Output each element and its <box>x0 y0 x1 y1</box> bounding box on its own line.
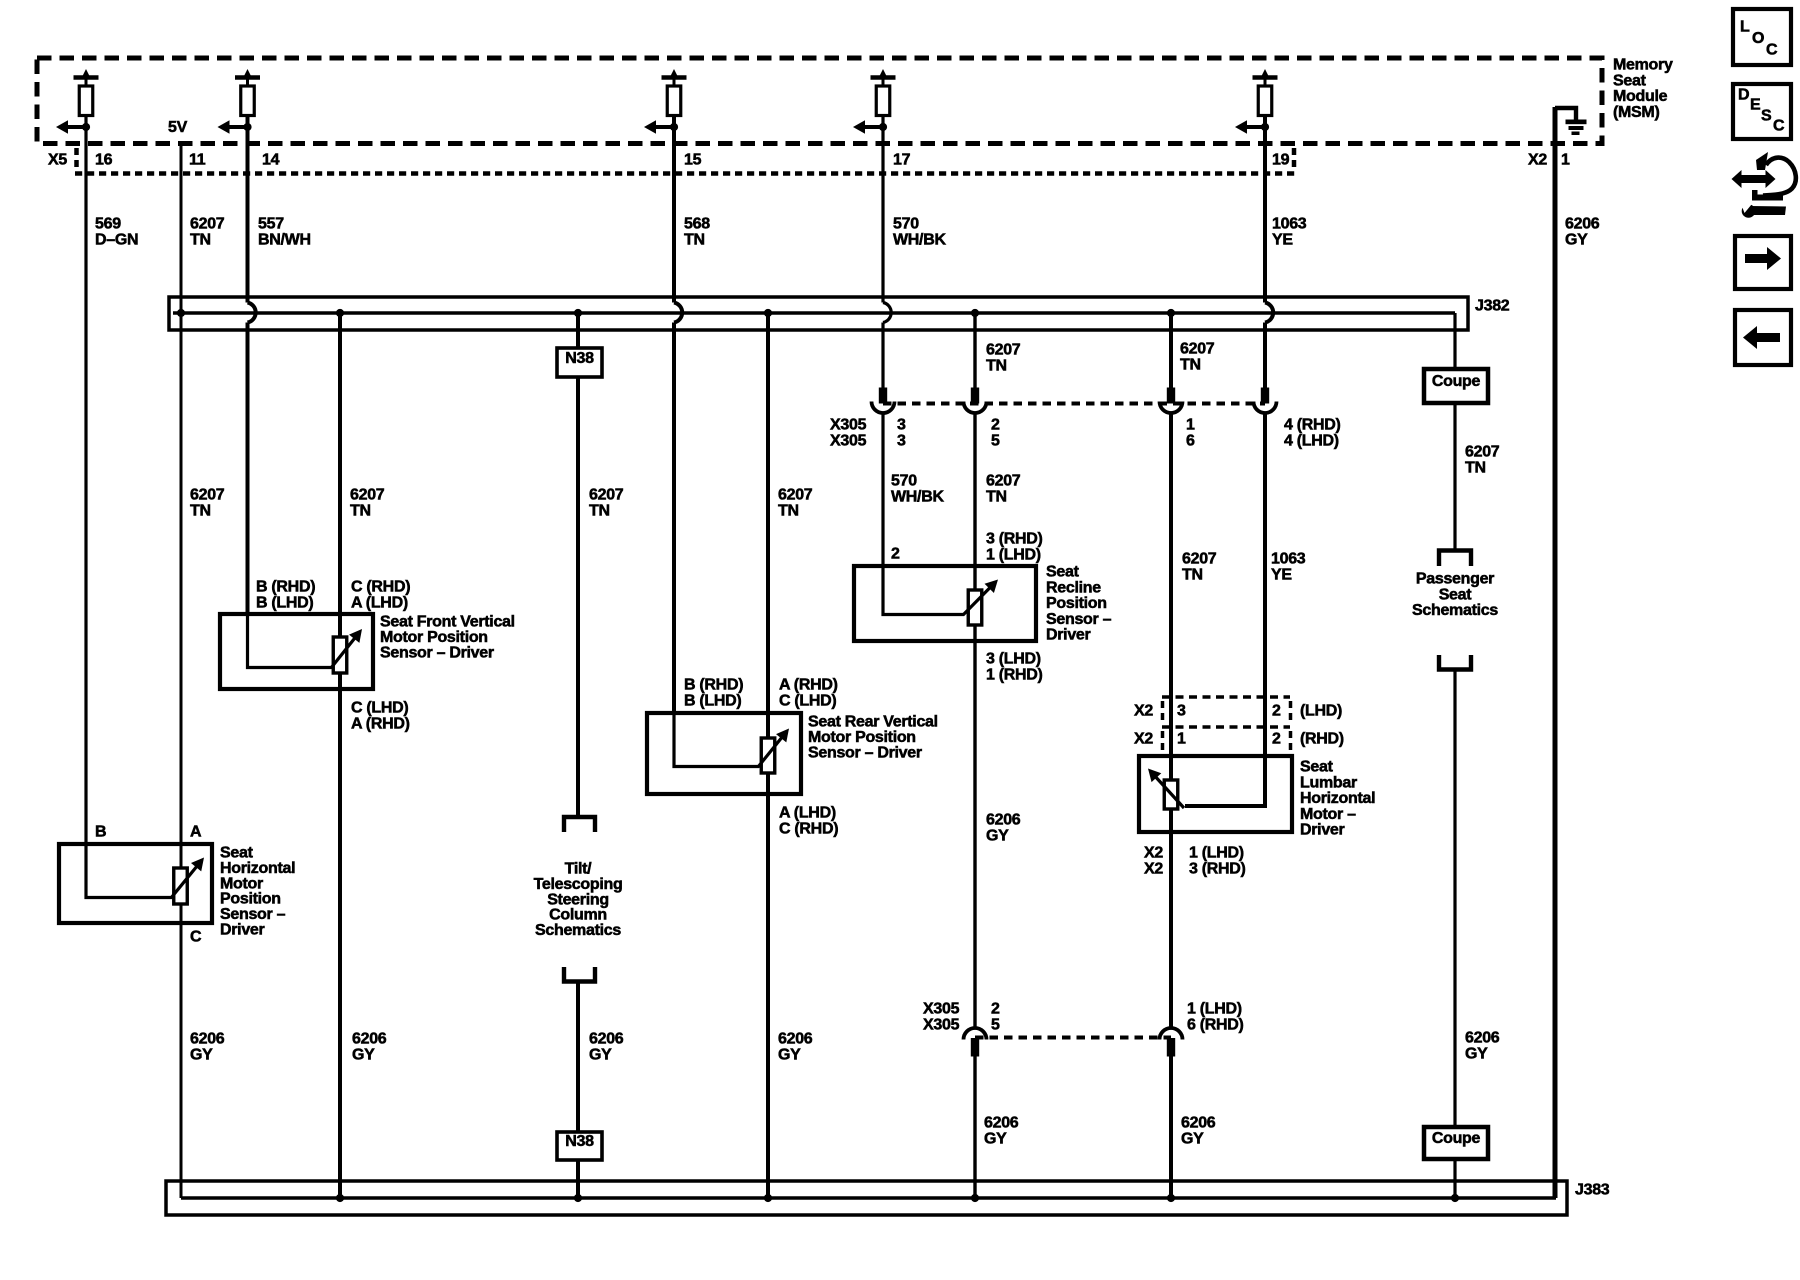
connector X2 dashed line row 2 <box>1162 725 1290 729</box>
potentiometer sensor: Seat Front Vertical Motor Position Sensor - Driver <box>220 614 373 689</box>
svg-text:TN: TN <box>190 232 211 249</box>
svg-text:B (RHD): B (RHD) <box>684 677 743 694</box>
svg-text:B (LHD): B (LHD) <box>256 595 313 612</box>
wire 6206 GY Passenger Seat bracket to Coupe to J383 <box>1453 671 1456 1198</box>
inline connector X305 dashed line (lower) <box>975 1036 1171 1040</box>
inline connector X305 lower terminal pins 1/6 <box>1160 1028 1183 1040</box>
resistor element pin 17 <box>876 86 890 116</box>
svg-text:1: 1 <box>1561 152 1570 169</box>
svg-text:6207: 6207 <box>589 487 624 504</box>
svg-text:GY: GY <box>352 1047 375 1064</box>
icon forward arrow box <box>1735 236 1791 289</box>
svg-text:6206: 6206 <box>984 1115 1019 1132</box>
svg-text:5: 5 <box>991 1017 1000 1034</box>
up arrowhead on bar pin 15 <box>670 69 679 78</box>
svg-text:GY: GY <box>1565 232 1588 249</box>
potentiometer sensor: Seat Recline Position Sensor - Driver <box>854 566 1036 641</box>
svg-text:6207: 6207 <box>986 473 1021 490</box>
svg-text:6206: 6206 <box>1565 216 1600 233</box>
svg-text:TN: TN <box>589 503 610 520</box>
svg-text:A: A <box>190 824 202 841</box>
svg-text:GY: GY <box>778 1047 801 1064</box>
svg-text:6206: 6206 <box>1181 1115 1216 1132</box>
connector X5 dotted strip line <box>75 171 1296 176</box>
junction dot on J382 at x=1171 <box>1167 309 1175 317</box>
svg-text:6: 6 <box>1186 433 1195 450</box>
wire 6207 TN tap J382 to Seat Front Vertical sensor to J383 <box>338 313 342 1198</box>
svg-text:4 (RHD): 4 (RHD) <box>1284 417 1341 434</box>
svg-text:Position: Position <box>1046 595 1107 612</box>
svg-text:6207: 6207 <box>190 487 225 504</box>
svg-text:16: 16 <box>95 152 113 169</box>
up arrowhead on bar pin 19 <box>1261 69 1270 78</box>
junction dot on J383 at x=578 <box>574 1194 582 1202</box>
svg-text:2: 2 <box>891 546 900 563</box>
wire 569 D-GN pin 16 to Seat Horizontal sensor wiper <box>84 116 87 845</box>
svg-text:Recline: Recline <box>1046 579 1101 596</box>
svg-text:GY: GY <box>986 828 1009 845</box>
svg-text:3: 3 <box>1177 703 1186 720</box>
svg-text:15: 15 <box>684 152 702 169</box>
svg-text:6206: 6206 <box>1465 1030 1500 1047</box>
off-page bracket to Passenger Seat Schematics (lower) <box>1439 655 1471 670</box>
svg-text:1 (LHD): 1 (LHD) <box>986 547 1041 564</box>
resistor element pin 16 <box>79 86 93 116</box>
svg-text:A (RHD): A (RHD) <box>351 716 410 733</box>
svg-text:3: 3 <box>897 433 906 450</box>
svg-text:X305: X305 <box>830 417 867 434</box>
junction dot on J383 at x=768 <box>764 1194 772 1202</box>
signal arrow to MSM logic pin 16 <box>60 125 86 129</box>
svg-text:(LHD): (LHD) <box>1300 703 1342 720</box>
MSM internal ground connection corner <box>1555 108 1576 120</box>
junction dot pin 16 <box>82 123 90 131</box>
Memory Seat Module (MSM) dashed outline box <box>37 58 1602 144</box>
svg-text:568: 568 <box>684 216 710 233</box>
splice pack J383 inner conductor <box>181 1196 1556 1200</box>
svg-text:TN: TN <box>986 489 1007 506</box>
splice pack J382 outer box <box>169 297 1468 330</box>
signal arrow to MSM logic pin 15 <box>648 125 674 129</box>
svg-text:X2: X2 <box>1144 845 1163 862</box>
svg-text:C: C <box>1766 42 1778 59</box>
svg-text:570: 570 <box>893 216 919 233</box>
junction dot pin 19 <box>1261 123 1269 131</box>
stem pin 16 <box>85 78 88 88</box>
icon DESC box <box>1733 84 1791 139</box>
svg-text:2: 2 <box>991 417 1000 434</box>
icon quick-link (double arrow, loop arrow, wrench) <box>1741 175 1766 183</box>
svg-text:D: D <box>1738 87 1749 104</box>
wire 6207 TN tap J382 to X305 (lumbar branch) <box>1169 313 1173 389</box>
off-page bracket to Tilt/Telescoping (upper) <box>564 817 595 832</box>
svg-text:6207: 6207 <box>986 342 1021 359</box>
resistor element pin 19 <box>1258 86 1272 116</box>
junction dot on J383 at x=1171 <box>1167 1194 1175 1202</box>
svg-text:TN: TN <box>1180 357 1201 374</box>
svg-text:6206: 6206 <box>778 1031 813 1048</box>
wire 6206 GY X2 pin 1 ground to J383 <box>1553 107 1558 1198</box>
wire 570 WH/BK pin 17 hop to X305 plug <box>881 323 884 390</box>
potentiometer: Seat Lumbar Horizontal Motor - Driver <box>1139 756 1292 832</box>
svg-text:569: 569 <box>95 216 121 233</box>
svg-text:Sensor –: Sensor – <box>1046 611 1112 628</box>
svg-text:GY: GY <box>1465 1046 1488 1063</box>
svg-text:O: O <box>1752 30 1764 47</box>
svg-text:1063: 1063 <box>1271 551 1306 568</box>
wire 570 WH/BK pin 17 (above J382 hop) <box>881 116 884 303</box>
up arrowhead on bar pin 16 <box>82 69 91 78</box>
junction dot pin 14 <box>243 123 251 131</box>
internal MSM sensor feed symbol for pin 17: top bar <box>871 75 896 80</box>
junction dot on J383 at x=1455 <box>1451 1194 1459 1202</box>
svg-text:J382: J382 <box>1475 298 1510 315</box>
splice pack J382 inner conductor <box>173 311 1455 315</box>
svg-text:6207: 6207 <box>778 487 813 504</box>
junction dot pin 17 <box>879 123 887 131</box>
inline connector X305 upper terminal pins 3/3 <box>879 388 887 404</box>
svg-text:TN: TN <box>350 503 371 520</box>
wire 557 BN/WH pin 14 (below hop) to Seat Front Vertical sensor <box>246 323 250 615</box>
wire 6207 TN tap J382 through N38 to bracket <box>576 313 580 817</box>
svg-text:Schematics: Schematics <box>535 922 621 939</box>
inline connector X305 upper terminal pins 1/6 <box>1167 388 1175 404</box>
svg-text:Coupe: Coupe <box>1432 373 1481 390</box>
svg-text:Coupe: Coupe <box>1432 1130 1481 1147</box>
svg-text:Memory: Memory <box>1613 57 1673 74</box>
stem pin 17 <box>882 78 885 88</box>
svg-text:14: 14 <box>262 152 280 169</box>
svg-text:TN: TN <box>190 503 211 520</box>
svg-text:N38: N38 <box>565 1133 594 1150</box>
svg-text:X2: X2 <box>1528 152 1547 169</box>
svg-text:3 (RHD): 3 (RHD) <box>986 531 1043 548</box>
svg-text:B (RHD): B (RHD) <box>256 579 315 596</box>
svg-text:6207: 6207 <box>1182 551 1217 568</box>
svg-text:WH/BK: WH/BK <box>893 232 946 249</box>
stem pin 15 <box>673 78 676 88</box>
svg-text:Sensor – Driver: Sensor – Driver <box>380 644 494 661</box>
svg-text:5V: 5V <box>168 119 188 136</box>
svg-text:J383: J383 <box>1575 1182 1610 1199</box>
svg-text:(RHD): (RHD) <box>1300 731 1344 748</box>
svg-text:Sensor – Driver: Sensor – Driver <box>808 744 922 761</box>
svg-text:Schematics: Schematics <box>1412 602 1498 619</box>
svg-text:A (LHD): A (LHD) <box>779 805 836 822</box>
wire 557 BN/WH pin 14 (above J382 hop) <box>246 116 250 303</box>
wire hop over J382 conductor at x=883 <box>883 303 891 323</box>
internal MSM sensor feed symbol for pin 14: top bar <box>235 75 260 80</box>
inline connector X305 upper terminal pins 2/5 <box>971 388 979 404</box>
svg-text:3 (RHD): 3 (RHD) <box>1189 861 1246 878</box>
svg-text:D–GN: D–GN <box>95 232 138 249</box>
svg-text:A (LHD): A (LHD) <box>351 595 408 612</box>
svg-text:Motor –: Motor – <box>1300 806 1356 823</box>
icon back arrow box <box>1735 310 1791 365</box>
svg-text:570: 570 <box>891 473 917 490</box>
svg-text:17: 17 <box>893 152 911 169</box>
svg-text:3: 3 <box>897 417 906 434</box>
svg-text:6206: 6206 <box>352 1031 387 1048</box>
connector X2 dashed line row 1 <box>1162 695 1290 699</box>
svg-text:6207: 6207 <box>1465 444 1500 461</box>
svg-text:N38: N38 <box>565 350 594 367</box>
svg-text:X305: X305 <box>830 433 867 450</box>
up arrowhead on bar pin 17 <box>879 69 888 78</box>
wire hop over J382 conductor at x=674 <box>674 303 682 323</box>
svg-text:X305: X305 <box>923 1017 960 1034</box>
option box Coupe (upper) <box>1424 369 1488 403</box>
resistor element pin 14 <box>241 86 255 116</box>
wire 570 WH/BK X305 to Seat Recline sensor <box>881 414 884 566</box>
svg-text:B (LHD): B (LHD) <box>684 693 741 710</box>
splice pack J383 outer box <box>166 1181 1567 1215</box>
svg-text:Seat: Seat <box>1300 759 1334 776</box>
svg-text:TN: TN <box>1182 567 1203 584</box>
wire hop over J382 conductor at x=247.5 <box>248 303 256 323</box>
svg-text:X305: X305 <box>923 1001 960 1018</box>
svg-text:TN: TN <box>986 358 1007 375</box>
svg-text:X2: X2 <box>1144 861 1163 878</box>
svg-text:19: 19 <box>1272 152 1290 169</box>
svg-text:6206: 6206 <box>190 1031 225 1048</box>
off-page bracket to Passenger Seat Schematics (upper) <box>1439 551 1471 567</box>
stem pin 14 <box>246 78 249 88</box>
wire 568 TN pin 15 (below hop) to Seat Rear Vertical sensor <box>672 323 676 714</box>
wire 6207 TN tap J382 to X305 <box>973 313 976 389</box>
svg-text:C: C <box>1773 118 1785 135</box>
icon LOC box <box>1733 9 1791 65</box>
component N38 (lower) <box>557 1132 602 1160</box>
junction dot on J382 at x=975 <box>971 309 979 317</box>
svg-text:Seat: Seat <box>1046 564 1080 581</box>
svg-text:C: C <box>190 929 202 946</box>
up arrowhead on bar pin 14 <box>243 69 252 78</box>
svg-text:GY: GY <box>1181 1131 1204 1148</box>
inline connector X305 lower terminal pins 2/5 <box>964 1028 987 1040</box>
wire hop over J382 conductor at x=1265 <box>1265 303 1273 323</box>
connector X5 separator dash right <box>1292 148 1297 171</box>
resistor element pin 15 <box>667 86 681 116</box>
svg-text:WH/BK: WH/BK <box>891 489 944 506</box>
junction dot on J382 at x=768 <box>764 309 772 317</box>
svg-text:5: 5 <box>991 433 1000 450</box>
svg-text:Module: Module <box>1613 88 1668 105</box>
connector X5 separator dash left <box>74 148 79 171</box>
svg-text:GY: GY <box>190 1047 213 1064</box>
internal MSM sensor feed symbol for pin 16: top bar <box>74 75 99 80</box>
inline connector X305 dashed line (upper) <box>883 402 1265 406</box>
junction dot on J382 at x=340 <box>336 309 344 317</box>
svg-text:Lumbar: Lumbar <box>1300 774 1357 791</box>
svg-text:2: 2 <box>991 1001 1000 1018</box>
svg-text:YE: YE <box>1271 567 1292 584</box>
svg-text:1: 1 <box>1186 417 1195 434</box>
wire 6207 TN tap J382 to Seat Rear Vertical sensor to J383 <box>766 313 770 1198</box>
stem pin 19 <box>1264 78 1267 88</box>
svg-text:557: 557 <box>258 216 284 233</box>
svg-text:1 (RHD): 1 (RHD) <box>986 667 1043 684</box>
svg-text:X2: X2 <box>1134 703 1153 720</box>
wire 6207 TN X305 to Seat Recline sensor to lower X305 <box>973 414 976 1029</box>
svg-text:2: 2 <box>1272 731 1281 748</box>
svg-text:GY: GY <box>984 1131 1007 1148</box>
wire 6206 GY bracket through N38 to J383 <box>576 982 580 1199</box>
signal arrow to MSM logic pin 19 <box>1239 125 1265 129</box>
svg-text:TN: TN <box>684 232 705 249</box>
svg-text:C (RHD): C (RHD) <box>351 579 410 596</box>
wire 6207 TN X305 through X2 and Seat Lumbar motor to lower X305 <box>1169 414 1173 1029</box>
svg-text:(MSM): (MSM) <box>1613 104 1660 121</box>
wire 568 TN pin 15 (above J382 hop) <box>672 116 676 303</box>
svg-text:A (RHD): A (RHD) <box>779 677 838 694</box>
signal arrow to MSM logic pin 14 <box>222 125 248 129</box>
svg-text:4 (LHD): 4 (LHD) <box>1284 433 1339 450</box>
wire 6206 GY lower X305 to J383 <box>1169 1056 1173 1198</box>
svg-text:6207: 6207 <box>1180 341 1215 358</box>
svg-text:BN/WH: BN/WH <box>258 232 311 249</box>
svg-text:1 (LHD): 1 (LHD) <box>1189 845 1244 862</box>
wire 1063 YE X305 through X2 into Seat Lumbar motor <box>1185 414 1265 806</box>
svg-text:Driver: Driver <box>1300 822 1345 839</box>
svg-text:3 (LHD): 3 (LHD) <box>986 651 1041 668</box>
svg-text:YE: YE <box>1272 232 1293 249</box>
wire 1063 YE pin 19 (above J382 hop) <box>1263 116 1267 303</box>
ground symbol (MSM internal) <box>1566 120 1587 125</box>
svg-text:6206: 6206 <box>986 812 1021 829</box>
junction dot on J383 at x=975 <box>971 1194 979 1202</box>
svg-text:Passenger: Passenger <box>1416 571 1494 588</box>
svg-text:X2: X2 <box>1134 731 1153 748</box>
potentiometer sensor: Seat Horizontal Motor Position Sensor - Driver <box>59 844 212 923</box>
svg-text:E: E <box>1750 97 1761 114</box>
signal arrow to MSM logic pin 17 <box>857 125 883 129</box>
svg-text:Seat: Seat <box>1613 72 1647 89</box>
svg-text:6207: 6207 <box>350 487 385 504</box>
svg-text:Horizontal: Horizontal <box>1300 790 1375 807</box>
svg-text:Driver: Driver <box>220 922 265 939</box>
wire 6206 GY lower X305 to J383 <box>973 1056 976 1198</box>
svg-text:1: 1 <box>1177 731 1186 748</box>
off-page bracket to Tilt/Telescoping (lower) <box>564 967 595 982</box>
svg-text:6207: 6207 <box>190 216 225 233</box>
svg-text:GY: GY <box>589 1047 612 1064</box>
svg-text:Seat: Seat <box>1439 586 1473 603</box>
svg-text:6 (RHD): 6 (RHD) <box>1187 1017 1244 1034</box>
connector X2 side ticks <box>1161 701 1165 723</box>
svg-text:C (RHD): C (RHD) <box>779 821 838 838</box>
wire 6207 TN 5V feed pin 11 to J382 and Seat Horizontal sensor to J383 <box>180 144 183 1199</box>
svg-text:TN: TN <box>1465 460 1486 477</box>
junction dot on J382 at x=578 <box>574 309 582 317</box>
component N38 (upper) <box>557 348 602 377</box>
svg-text:B: B <box>95 824 106 841</box>
wire 1063 YE pin 19 hop to X305 <box>1263 323 1267 390</box>
svg-text:X5: X5 <box>48 152 67 169</box>
junction dot pin 15 <box>670 123 678 131</box>
svg-text:6206: 6206 <box>589 1031 624 1048</box>
svg-text:C (LHD): C (LHD) <box>351 700 408 717</box>
inline connector X305 upper terminal pins 4/4 <box>1261 388 1269 404</box>
wire 6207 TN J382 to Coupe and Passenger Seat bracket <box>1453 313 1456 549</box>
internal MSM sensor feed symbol for pin 15: top bar <box>662 75 687 80</box>
potentiometer sensor: Seat Rear Vertical Motor Position Sensor - Driver <box>647 713 801 794</box>
svg-text:2: 2 <box>1272 703 1281 720</box>
svg-text:11: 11 <box>189 152 206 169</box>
svg-text:TN: TN <box>778 503 799 520</box>
svg-text:1 (LHD): 1 (LHD) <box>1187 1001 1242 1018</box>
svg-text:Driver: Driver <box>1046 627 1091 644</box>
svg-text:S: S <box>1761 108 1772 125</box>
svg-text:1063: 1063 <box>1272 216 1307 233</box>
junction dot on J383 at x=340 <box>336 1194 344 1202</box>
svg-text:L: L <box>1740 19 1750 36</box>
svg-text:C (LHD): C (LHD) <box>779 693 836 710</box>
junction dot on J382 at x=181 <box>177 309 185 317</box>
internal MSM sensor feed symbol for pin 19: top bar <box>1253 75 1278 80</box>
option box Coupe (lower) <box>1424 1127 1488 1159</box>
